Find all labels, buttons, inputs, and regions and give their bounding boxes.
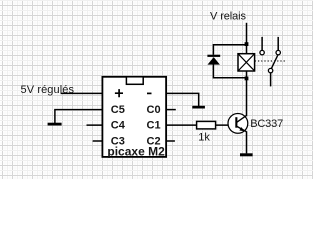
svg-text:C4: C4 <box>111 120 126 132</box>
diode D1 triangle <box>208 57 220 65</box>
relay contact circle left <box>260 50 264 54</box>
svg-text:C1: C1 <box>147 120 161 132</box>
resistor R1 box <box>197 121 216 128</box>
wire C1 to resistor <box>162 124 197 126</box>
relay contact circle right <box>276 50 280 54</box>
relay common contact circle <box>268 68 272 72</box>
IC U1 picaxe body <box>102 77 166 157</box>
IC notch <box>126 77 143 85</box>
wire resistor to base <box>216 124 236 126</box>
svg-text:BC337: BC337 <box>250 118 283 130</box>
svg-text:1k: 1k <box>198 131 210 143</box>
wire relay common stub <box>270 73 272 87</box>
pin C2 stub <box>162 140 175 142</box>
svg-text:picaxe M2: picaxe M2 <box>107 145 165 159</box>
junction dot node collector / diode bottom <box>245 77 249 81</box>
transistor emitter diagonal <box>237 126 247 131</box>
pin C3 stub <box>93 140 108 142</box>
wire emitter to ground <box>246 131 248 153</box>
ground bar under emitter <box>240 153 253 156</box>
wire C5 pin to ground <box>55 110 108 124</box>
wire relay contact stub right <box>277 37 279 51</box>
wire relay contact stub left <box>261 37 263 51</box>
wire - pin to ground <box>158 93 199 106</box>
svg-text:C5: C5 <box>111 104 125 116</box>
ground bar under - pin <box>192 106 205 109</box>
transistor collector diagonal <box>237 116 247 123</box>
svg-text:V relais: V relais <box>210 10 247 22</box>
net V relais vertical wire <box>246 23 248 54</box>
ground bar under C5 <box>48 123 62 126</box>
pin C0 stub <box>162 109 176 111</box>
svg-text:5V régulés: 5V régulés <box>21 84 75 96</box>
pin C4 stub <box>87 124 108 126</box>
svg-text:C0: C0 <box>147 104 161 116</box>
pin - symbol <box>147 92 152 94</box>
junction dot node V relais / diode top <box>245 42 249 46</box>
pin + symbol <box>115 89 123 97</box>
transistor base bar <box>235 117 237 128</box>
grid background <box>0 0 313 179</box>
wire 5V regules to + pin <box>61 92 111 94</box>
wire coil bottom to collector <box>246 71 248 116</box>
relay actuation dashed link <box>255 60 286 62</box>
relay switch blade <box>271 55 277 68</box>
wire diode bottom branch <box>213 64 246 77</box>
relay coil X <box>238 54 255 71</box>
transistor Q1 circle <box>228 114 248 134</box>
wire diode top branch <box>213 45 246 55</box>
transistor emitter arrow <box>239 127 244 131</box>
diode D1 cathode bar <box>207 55 220 57</box>
relay coil box <box>238 54 255 71</box>
